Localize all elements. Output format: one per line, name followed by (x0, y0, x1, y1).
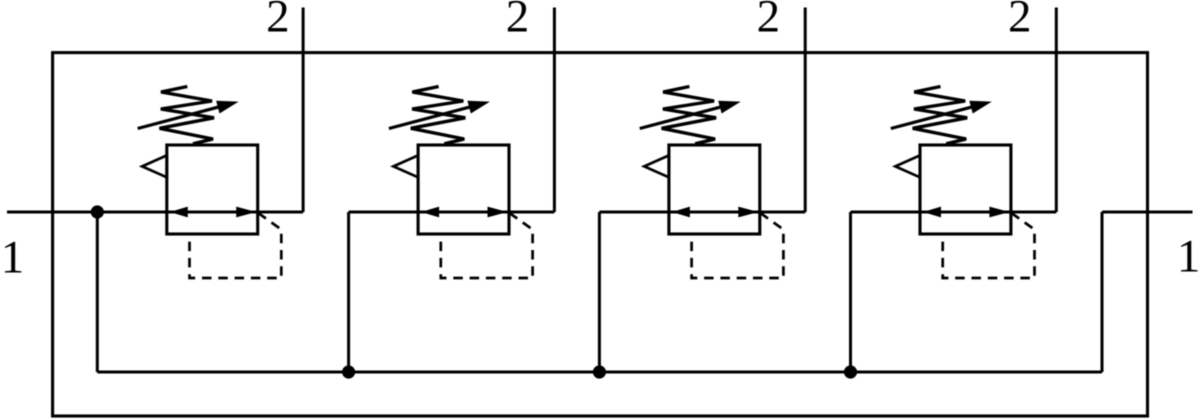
flow arrowhead right R3 (738, 207, 758, 218)
pressure regulator R3 body (669, 145, 760, 234)
svg-text:2: 2 (266, 0, 290, 43)
wire: supply riser unit 4 (849, 212, 852, 372)
pressure regulator R4 body (920, 145, 1011, 234)
svg-text:1: 1 (1, 232, 25, 284)
pilot (dashed) line R4 (943, 213, 1035, 278)
wire: flow line unit 1 (7, 211, 303, 214)
svg-text:2: 2 (1008, 0, 1032, 43)
adjustment arrow R2 (389, 103, 483, 128)
wire: port 2 riser unit 2 (553, 8, 556, 213)
wire: flow line unit 4 (851, 211, 1057, 214)
wire: right downcomer (1101, 212, 1104, 372)
pilot (dashed) line R2 (441, 213, 533, 278)
svg-text:2: 2 (506, 0, 530, 43)
svg-text:1: 1 (1177, 230, 1200, 282)
wire: flow line unit 2 (349, 211, 555, 214)
junction dot unit 4 (844, 365, 857, 378)
wire: flow line unit 3 (599, 211, 805, 214)
flow arrowhead left R4 (923, 207, 941, 218)
wire: port 2 riser unit 1 (302, 8, 305, 213)
flow arrowhead right R4 (989, 207, 1009, 218)
pressure regulator R1 body (167, 145, 258, 234)
flow arrowhead left R3 (672, 207, 690, 218)
wire: supply riser unit 2 (347, 212, 350, 372)
wire: port 2 riser unit 3 (804, 8, 807, 213)
flow arrowhead left R1 (170, 207, 188, 218)
pilot (dashed) line R3 (692, 213, 784, 278)
svg-text:2: 2 (757, 0, 781, 43)
adjustment arrow R3 (640, 103, 734, 128)
vent triangle R3 (644, 155, 669, 177)
vent triangle R4 (895, 155, 920, 177)
flow arrowhead right R1 (236, 207, 256, 218)
junction dot unit 3 (593, 365, 606, 378)
manifold block outline (53, 53, 1148, 416)
adjustment spring R1 (160, 87, 215, 144)
wire: supply riser unit 1 (96, 212, 99, 372)
flow arrowhead right R2 (488, 207, 508, 218)
junction dot unit 1 (91, 205, 104, 218)
pilot (dashed) line R1 (190, 213, 282, 278)
wire: port 2 riser unit 4 (1055, 8, 1058, 213)
junction dot unit 2 (342, 365, 355, 378)
vent triangle R2 (393, 155, 418, 177)
adjustment spring R4 (913, 87, 968, 144)
adjustment arrow R4 (891, 103, 985, 128)
flow arrowhead left R2 (421, 207, 439, 218)
wire: bottom supply bus (97, 371, 1102, 374)
vent triangle R1 (142, 155, 167, 177)
wire: supply riser unit 3 (598, 212, 601, 372)
wire: port 1 right feed (1102, 211, 1193, 214)
adjustment spring R2 (411, 87, 466, 144)
adjustment spring R3 (662, 87, 717, 144)
pressure regulator R2 body (418, 145, 509, 234)
adjustment arrow R1 (138, 103, 232, 128)
